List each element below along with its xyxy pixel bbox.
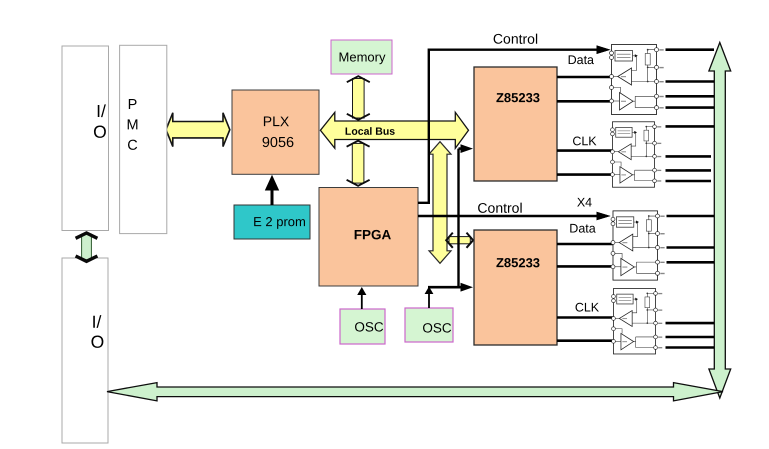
control arrowhead into group 1 (on top) xyxy=(597,45,611,54)
control arrowhead into group 3 (on top) xyxy=(597,212,611,221)
green double arrow I/O to I/O (left) xyxy=(76,233,98,261)
clock net arrow to Z85233#1 xyxy=(459,147,463,150)
OSC2 up arrow xyxy=(428,293,430,309)
FPGA box xyxy=(319,188,418,287)
svg-text:I/: I/ xyxy=(96,101,106,121)
yellow double arrow LocalBus-FPGA xyxy=(347,141,370,186)
PMC box xyxy=(120,45,167,233)
svg-text:M: M xyxy=(126,117,138,133)
yellow double arrow PMC-PLX xyxy=(166,113,230,147)
svg-text:OSC: OSC xyxy=(422,320,452,335)
svg-text:OSC: OSC xyxy=(354,319,384,334)
transceiver group 4 xyxy=(612,289,663,354)
svg-text:CLK: CLK xyxy=(575,300,600,314)
svg-text:Memory: Memory xyxy=(339,49,386,64)
right-side lines group4 xyxy=(666,323,715,347)
right-side lines group3 xyxy=(667,216,715,262)
OSC box 1 xyxy=(340,309,385,344)
control line A (FPGA to group1) xyxy=(418,50,598,203)
svg-text:P: P xyxy=(128,97,138,113)
svg-text:PLX: PLX xyxy=(263,113,290,129)
Memory box xyxy=(331,40,392,74)
svg-text:E 2 prom: E 2 prom xyxy=(253,214,306,229)
PLX 9056 box xyxy=(232,90,319,174)
E2prom box xyxy=(234,205,310,239)
svg-text:9056: 9056 xyxy=(262,135,294,151)
I/O box bottom-left xyxy=(62,258,108,443)
Z85233 box 1 xyxy=(474,67,557,181)
svg-text:Z85233: Z85233 xyxy=(496,255,540,270)
yellow tall double arrow LocalBus-Z85233#2 xyxy=(429,142,451,264)
transceiver group 2 xyxy=(611,122,662,187)
big green horizontal double arrow (bottom bus) xyxy=(107,383,723,401)
control line B (FPGA to group3) xyxy=(418,215,598,217)
yellow double arrow Memory-LocalBus xyxy=(347,76,370,120)
svg-text:FPGA: FPGA xyxy=(354,227,392,242)
svg-text:I/: I/ xyxy=(92,312,102,332)
transceiver group 1 xyxy=(610,45,664,115)
svg-text:Z85233: Z85233 xyxy=(496,90,540,105)
Z85233 box 2 xyxy=(474,230,557,345)
OSC box 2 xyxy=(405,308,453,342)
svg-text:O: O xyxy=(93,122,107,142)
clock net horizontal to Z85233#2 xyxy=(428,286,462,289)
svg-text:C: C xyxy=(127,138,137,154)
OSC1 to FPGA arrow xyxy=(361,294,363,310)
svg-text:Data: Data xyxy=(569,221,595,235)
svg-text:O: O xyxy=(91,332,105,352)
svg-text:Control: Control xyxy=(477,200,522,216)
right-side lines group1 xyxy=(666,50,715,108)
yellow small double arrow to Z85233#2 xyxy=(446,233,473,248)
transceiver group 3 xyxy=(611,211,665,280)
Z85233#1 data lines xyxy=(557,77,612,101)
svg-text:Control: Control xyxy=(493,31,538,47)
Z85233#2 data lines xyxy=(557,244,613,266)
right-side lines group2 xyxy=(666,126,715,181)
Z85233#1 clk lines xyxy=(557,151,612,175)
svg-text:Local Bus: Local Bus xyxy=(345,126,395,138)
big green vertical double arrow (right bus) xyxy=(709,43,731,399)
E2prom to PLX arrow xyxy=(271,188,274,205)
clock net vertical xyxy=(457,149,459,288)
yellow Local Bus double arrow xyxy=(320,112,468,148)
svg-text:Data: Data xyxy=(568,53,594,67)
svg-text:X4: X4 xyxy=(577,195,592,209)
Z85233#2 clk lines xyxy=(557,318,613,341)
svg-text:CLK: CLK xyxy=(572,134,597,148)
I/O box top-left xyxy=(62,46,109,231)
